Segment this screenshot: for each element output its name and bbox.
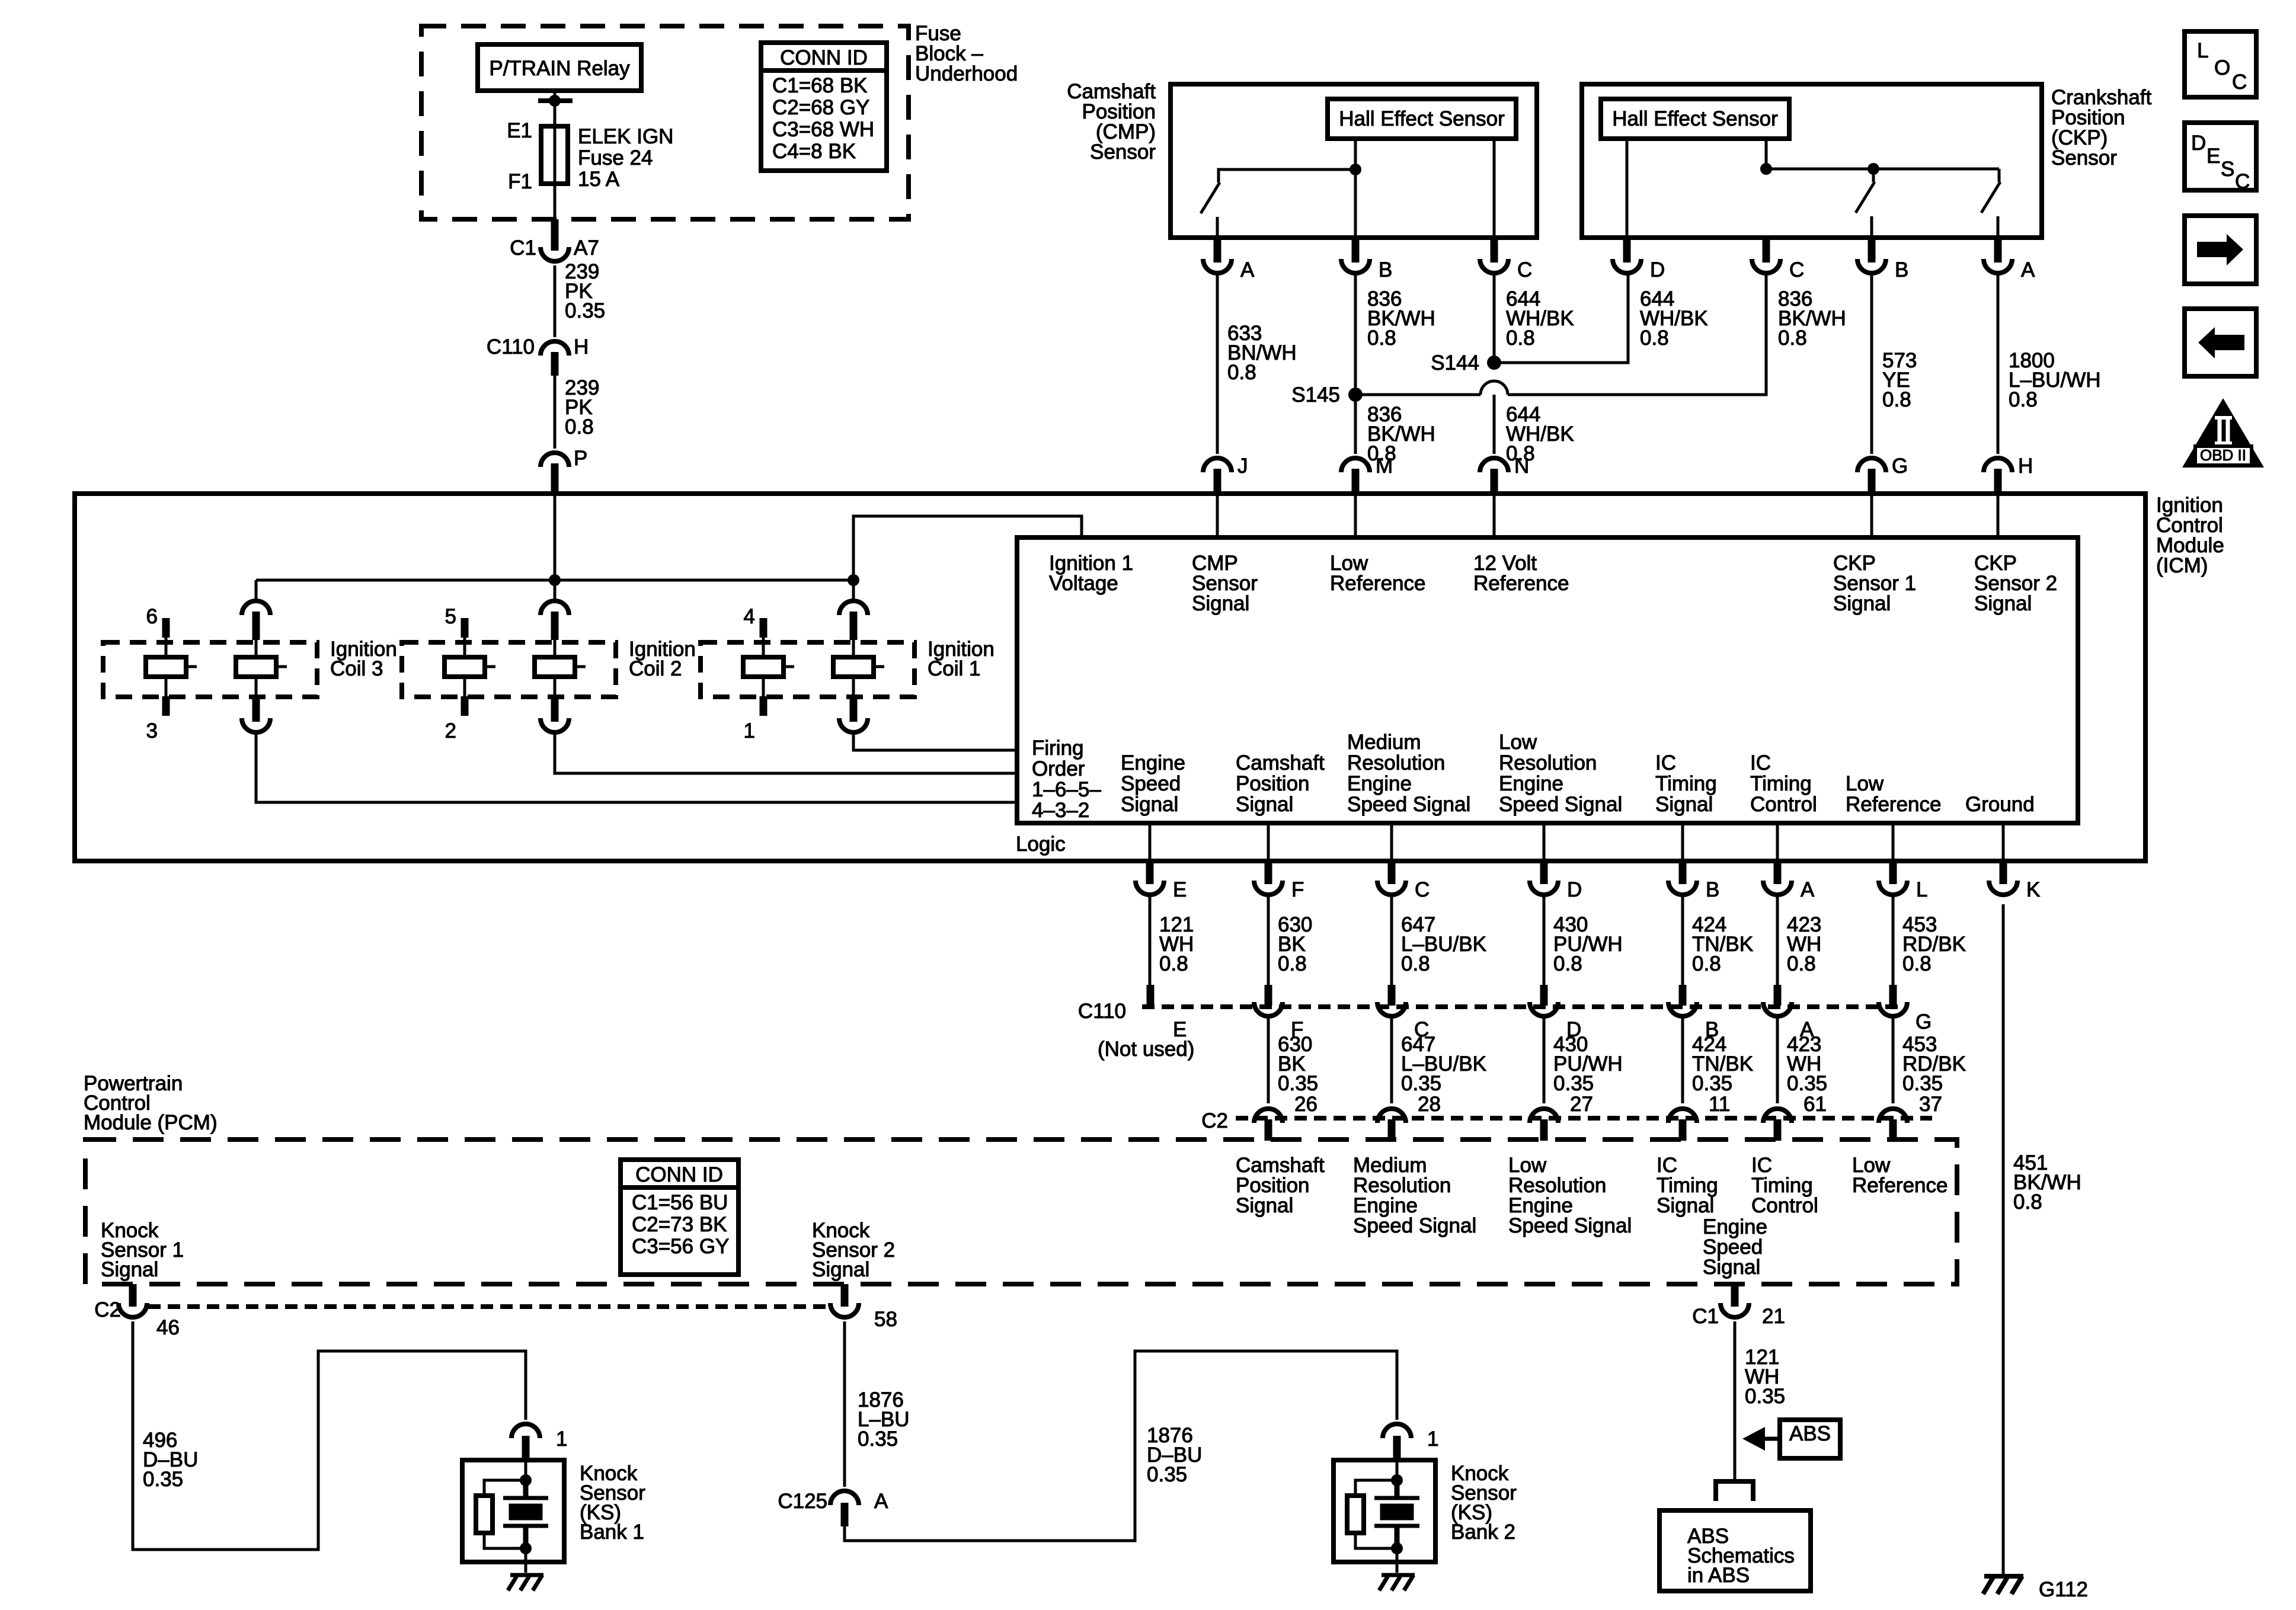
label medium resolution engine speed signal <box>1347 731 1470 816</box>
svg-text:P/TRAIN Relay: P/TRAIN Relay <box>489 57 630 80</box>
svg-text:0.35: 0.35 <box>1553 1072 1594 1095</box>
connector A CKP <box>1984 238 2035 281</box>
svg-text:D: D <box>2191 132 2206 155</box>
svg-text:C4=8 BK: C4=8 BK <box>772 140 856 163</box>
svg-text:C2: C2 <box>94 1298 121 1321</box>
svg-text:C: C <box>1415 878 1430 901</box>
connector pin 61 C2 PCM <box>1763 1109 1792 1141</box>
connector row C110 dashed line <box>1078 1000 1905 1023</box>
svg-text:0.35: 0.35 <box>858 1427 898 1451</box>
svg-text:IC: IC <box>1655 751 1676 774</box>
svg-text:Engine: Engine <box>1121 751 1185 774</box>
wire 647 L–BU/BK 0.8 pin C <box>1392 895 1486 988</box>
svg-text:J: J <box>1237 454 1248 478</box>
svg-text:Timing: Timing <box>1655 772 1717 795</box>
wire dotted C2-58 <box>148 1304 829 1309</box>
svg-text:Signal: Signal <box>1833 592 1891 615</box>
svg-text:Signal: Signal <box>812 1258 869 1281</box>
svg-text:0.8: 0.8 <box>1553 952 1582 975</box>
svg-text:C2=68 GY: C2=68 GY <box>772 96 869 119</box>
svg-text:D: D <box>1650 258 1665 281</box>
svg-text:0.35: 0.35 <box>1692 1072 1732 1095</box>
svg-text:Engine: Engine <box>1499 772 1563 795</box>
svg-text:Signal: Signal <box>1974 592 2032 615</box>
svg-text:Medium: Medium <box>1347 731 1421 754</box>
pin B ICM bottom <box>1668 823 1719 901</box>
svg-text:0.8: 0.8 <box>1227 361 1256 384</box>
svg-text:0.8: 0.8 <box>1506 327 1535 350</box>
svg-text:P: P <box>574 447 587 470</box>
label firing order <box>1032 737 1101 822</box>
wire 630 BK 0.8 pin F <box>1268 895 1312 988</box>
svg-text:26: 26 <box>1294 1093 1318 1116</box>
svg-text:Sensor: Sensor <box>2051 146 2117 169</box>
label low reference top <box>1330 552 1425 595</box>
connector C C110 <box>1377 985 1429 1041</box>
svg-text:C: C <box>2232 71 2247 94</box>
svg-text:0.35: 0.35 <box>1401 1072 1441 1095</box>
svg-text:D: D <box>1567 878 1582 901</box>
svg-text:Coil 1: Coil 1 <box>928 657 980 680</box>
svg-text:0.8: 0.8 <box>2009 388 2038 411</box>
label low resolution PCM <box>1508 1154 1632 1237</box>
svg-text:Bank 1: Bank 1 <box>580 1521 644 1544</box>
svg-text:ELEK IGN: ELEK IGN <box>578 125 673 148</box>
ignition coil dashed box Coil 1 <box>701 642 914 697</box>
wire 423 WH 0.35 C110-C2 <box>1777 1016 1827 1116</box>
wire coil supply bus <box>256 574 859 586</box>
svg-text:G: G <box>1916 1010 1932 1033</box>
connector 1 knock sensor 1 <box>511 1424 567 1460</box>
svg-text:0.8: 0.8 <box>2013 1190 2042 1214</box>
svg-text:C: C <box>1789 258 1804 281</box>
label knock sensor 1 signal <box>101 1219 184 1281</box>
switch CMP <box>1201 164 1361 238</box>
svg-text:Order: Order <box>1032 757 1085 780</box>
ignition coil secondary Coil 2 <box>535 580 586 732</box>
svg-text:C1: C1 <box>1692 1305 1719 1328</box>
svg-text:S145: S145 <box>1291 383 1340 406</box>
connector pin 28 C2 PCM <box>1377 1109 1406 1141</box>
svg-text:0.8: 0.8 <box>1401 952 1430 975</box>
wire 633 BN/WH 0.8 <box>1217 274 1297 454</box>
svg-text:M: M <box>1376 454 1393 478</box>
svg-text:C3=68 WH: C3=68 WH <box>772 118 874 141</box>
svg-text:0.35: 0.35 <box>1745 1385 1785 1408</box>
wire H into logic <box>1997 494 2000 537</box>
svg-text:Logic: Logic <box>1016 833 1066 856</box>
svg-text:Coil 2: Coil 2 <box>629 657 682 680</box>
wire 644 WH/BK 0.8 D branch <box>1494 274 1708 363</box>
wire 423 WH 0.8 pin A <box>1777 895 1821 988</box>
icon arrow left <box>2185 309 2256 376</box>
label engine speed signal <box>1121 751 1185 816</box>
wire 121 WH 0.35 <box>1735 1321 1785 1480</box>
svg-text:58: 58 <box>874 1308 897 1331</box>
label ignition 1 voltage <box>1049 552 1133 595</box>
ignition coil primary Coil 1 <box>743 605 794 742</box>
ignition coil primary Coil 3 <box>146 605 197 742</box>
svg-text:37: 37 <box>1919 1093 1942 1116</box>
svg-text:0.35: 0.35 <box>1787 1072 1827 1095</box>
relay K relay box P/TRAIN Relay <box>478 44 641 91</box>
wire 424 TN/BK 0.35 C110-C2 <box>1683 1016 1753 1116</box>
connector pin 27 C2 PCM <box>1530 1109 1558 1141</box>
label Coil 2 <box>629 638 696 680</box>
svg-text:A7: A7 <box>574 236 599 260</box>
connector C110 H top <box>487 335 589 376</box>
svg-text:Speed Signal: Speed Signal <box>1353 1214 1476 1237</box>
wire 430 PU/WH 0.8 pin D <box>1544 895 1623 988</box>
svg-text:Fuse 24: Fuse 24 <box>578 146 653 169</box>
label camshaft position sensor <box>1067 80 1156 164</box>
svg-text:C2=73 BK: C2=73 BK <box>632 1213 727 1236</box>
wire coil 2 firing line <box>555 735 1017 773</box>
svg-text:Resolution: Resolution <box>1347 751 1445 774</box>
svg-text:Voltage: Voltage <box>1049 572 1118 595</box>
svg-text:Signal: Signal <box>1236 1194 1293 1217</box>
pin C ICM bottom <box>1377 823 1430 901</box>
wire 239 PK 0.8 <box>555 376 599 449</box>
svg-text:C3=56 GY: C3=56 GY <box>632 1235 729 1258</box>
label camshaft position signal <box>1236 751 1325 816</box>
abs arrow tag <box>1742 1420 1840 1458</box>
pin E C110 not used <box>1098 985 1194 1061</box>
label IC timing signal <box>1655 751 1717 816</box>
wire 1800 L-BU/WH 0.8 <box>1998 274 2101 454</box>
wire 836 BK/WH 0.8 lower <box>1355 395 1435 465</box>
fuse F24 ELEK IGN 15A <box>507 119 673 193</box>
wire 836 BK/WH 0.8 C branch <box>1355 274 1846 395</box>
svg-text:ABS: ABS <box>1789 1422 1831 1445</box>
wire hall C internal CKP <box>1765 139 1768 169</box>
connector C2 46 PCM <box>94 1284 180 1339</box>
svg-text:0.35: 0.35 <box>1902 1072 1943 1095</box>
svg-text:C1=56 BU: C1=56 BU <box>632 1191 728 1214</box>
svg-text:46: 46 <box>156 1316 180 1339</box>
wire 1876 D-BU 0.35 <box>845 1351 1397 1541</box>
svg-text:Bank 2: Bank 2 <box>1451 1521 1515 1544</box>
svg-text:Coil 3: Coil 3 <box>330 657 383 680</box>
connector G ICM <box>1857 454 1908 494</box>
svg-text:Speed Signal: Speed Signal <box>1499 793 1622 816</box>
wire CKP internal bus <box>1760 163 1999 175</box>
label medium resolution PCM <box>1353 1154 1476 1237</box>
connector C125 A <box>778 1490 888 1526</box>
conn-id table PCM <box>621 1160 738 1275</box>
svg-text:Module (PCM): Module (PCM) <box>84 1111 218 1134</box>
svg-text:0.8: 0.8 <box>1787 952 1816 975</box>
connector C1 A7 <box>510 219 599 261</box>
wire M into logic <box>1354 494 1357 537</box>
connector F C110 <box>1254 985 1303 1041</box>
svg-text:Speed Signal: Speed Signal <box>1508 1214 1632 1237</box>
logic box inside ICM <box>1017 537 2078 823</box>
svg-text:Control: Control <box>1750 793 1817 816</box>
CMP sensor box <box>1171 84 1537 238</box>
connector 1 knock sensor 2 <box>1383 1424 1438 1460</box>
svg-text:A: A <box>874 1490 888 1513</box>
svg-text:E1: E1 <box>507 119 532 142</box>
svg-text:C2: C2 <box>1201 1109 1228 1132</box>
svg-text:C110: C110 <box>1078 1000 1126 1023</box>
svg-text:1: 1 <box>556 1427 567 1451</box>
svg-text:0.35: 0.35 <box>143 1468 183 1491</box>
svg-text:IC: IC <box>1750 751 1771 774</box>
wire fuse to connector C1 <box>554 184 557 219</box>
wire N into logic <box>1493 494 1496 537</box>
label low reference PCM <box>1852 1154 1948 1197</box>
svg-text:2: 2 <box>445 719 456 742</box>
svg-text:Speed Signal: Speed Signal <box>1347 793 1470 816</box>
label CMP sensor signal <box>1192 552 1258 615</box>
svg-text:1: 1 <box>744 719 755 742</box>
svg-text:A: A <box>1801 878 1815 901</box>
label camshaft position signal PCM <box>1236 1154 1325 1217</box>
node relay output tap <box>538 95 573 107</box>
wire 647 L–BU/BK 0.35 C110-C2 <box>1392 1016 1486 1116</box>
svg-text:B: B <box>1895 258 1908 281</box>
svg-text:Signal: Signal <box>1192 592 1249 615</box>
ignition coil secondary Coil 1 <box>833 580 884 732</box>
wire 1876 L-BU 0.35 <box>845 1321 910 1487</box>
svg-text:L: L <box>2197 39 2208 62</box>
svg-text:Signal: Signal <box>1121 793 1178 816</box>
label powertrain control module <box>84 1072 218 1134</box>
label knock sensor 2 signal <box>812 1219 895 1281</box>
wire 121 WH 0.8 pin E <box>1150 895 1194 988</box>
svg-text:0.8: 0.8 <box>1778 327 1807 350</box>
svg-text:Resolution: Resolution <box>1499 751 1597 774</box>
wire 451 BK/WH 0.8 ground <box>2003 904 2081 1576</box>
svg-text:0.8: 0.8 <box>565 415 594 438</box>
svg-text:C: C <box>2235 170 2250 193</box>
wire 453 RD/BK 0.35 C110-C2 <box>1893 1016 1966 1116</box>
svg-text:Signal: Signal <box>1703 1256 1760 1279</box>
svg-text:Position: Position <box>1236 772 1310 795</box>
svg-text:Reference: Reference <box>1473 572 1569 595</box>
svg-text:L: L <box>1916 878 1927 901</box>
svg-text:15 A: 15 A <box>578 168 620 191</box>
svg-text:Control: Control <box>1751 1194 1818 1217</box>
svg-text:O: O <box>2214 56 2230 79</box>
switch CKP sensor 2 <box>1981 169 2000 238</box>
connector D C110 <box>1530 985 1581 1041</box>
wire J into logic <box>1216 494 1219 537</box>
connector fork to ABS schematics <box>1716 1481 1753 1501</box>
svg-text:0.8: 0.8 <box>1692 952 1721 975</box>
ICM ignition control module box <box>75 494 2145 861</box>
svg-text:H: H <box>2018 454 2033 478</box>
CKP sensor box <box>1582 84 2042 238</box>
svg-text:1–6–5–: 1–6–5– <box>1032 778 1101 801</box>
svg-text:1: 1 <box>1427 1427 1438 1451</box>
icon arrow right <box>2185 216 2256 284</box>
label IC timing control PCM <box>1751 1154 1818 1217</box>
wire 239 PK 0.35 <box>555 260 605 337</box>
svg-text:(Not used): (Not used) <box>1098 1038 1194 1061</box>
ignition coil secondary Coil 3 <box>236 580 287 732</box>
connector B C110 <box>1668 985 1719 1041</box>
svg-text:0.35: 0.35 <box>565 299 605 322</box>
connector B CMP <box>1341 238 1392 281</box>
connector B CKP <box>1857 238 1908 281</box>
svg-text:0.8: 0.8 <box>1367 327 1396 350</box>
label crankshaft position sensor <box>2051 86 2152 169</box>
ground G112 <box>1983 1576 2088 1601</box>
svg-text:5: 5 <box>445 605 456 628</box>
svg-text:N: N <box>1514 454 1529 478</box>
svg-text:Sensor: Sensor <box>1090 140 1156 164</box>
connector D CKP <box>1613 238 1665 281</box>
connector N ICM <box>1480 454 1529 494</box>
svg-text:F1: F1 <box>508 170 532 193</box>
svg-text:61: 61 <box>1803 1093 1827 1116</box>
svg-text:CONN ID: CONN ID <box>780 46 868 69</box>
knock sensor KS bank 1 <box>462 1460 645 1590</box>
svg-text:Reference: Reference <box>1330 572 1425 595</box>
svg-text:0.8: 0.8 <box>1278 952 1307 975</box>
icon OBD II triangle <box>2182 398 2264 468</box>
svg-text:4: 4 <box>744 605 755 628</box>
svg-text:Reference: Reference <box>1852 1174 1948 1197</box>
svg-text:Low: Low <box>1846 772 1884 795</box>
connector pin 26 C2 PCM <box>1254 1109 1283 1141</box>
svg-text:0.8: 0.8 <box>1159 952 1188 975</box>
svg-text:A: A <box>2021 258 2035 281</box>
label CKP sensor 1 signal <box>1833 552 1916 615</box>
connector 58 PCM <box>830 1284 897 1331</box>
svg-text:0.8: 0.8 <box>1882 388 1911 411</box>
icon DESC <box>2185 123 2256 193</box>
wire relay to fuse <box>554 91 557 126</box>
svg-text:B: B <box>1379 258 1392 281</box>
svg-text:6: 6 <box>146 605 158 628</box>
label Coil 3 <box>330 638 397 680</box>
svg-text:Signal: Signal <box>1655 793 1713 816</box>
svg-text:Signal: Signal <box>1236 793 1293 816</box>
svg-text:G112: G112 <box>2039 1578 2088 1601</box>
connector C CKP <box>1752 238 1804 281</box>
label ignition control module <box>2156 494 2224 577</box>
connector pin 37 C2 PCM <box>1879 1109 1907 1141</box>
node S144 <box>1431 351 1501 375</box>
svg-text:Timing: Timing <box>1750 772 1812 795</box>
switch CKP sensor 1 <box>1856 169 1875 238</box>
wire P into ICM <box>554 494 557 580</box>
svg-text:0.35: 0.35 <box>1278 1072 1318 1095</box>
svg-text:Speed: Speed <box>1121 772 1181 795</box>
pin L ICM bottom <box>1879 823 1927 901</box>
svg-text:Camshaft: Camshaft <box>1236 751 1325 774</box>
connector C CMP <box>1480 238 1532 281</box>
connector A C110 <box>1763 985 1814 1041</box>
svg-text:C125: C125 <box>778 1490 827 1513</box>
wire 496 D-BU 0.35 <box>133 1321 526 1550</box>
svg-text:F: F <box>1291 878 1304 901</box>
svg-text:Firing: Firing <box>1032 737 1084 760</box>
wire coil 1 firing line <box>853 735 1017 750</box>
connector pin 11 C2 PCM <box>1668 1109 1697 1141</box>
icon LOC <box>2185 31 2256 97</box>
svg-text:Hall Effect Sensor: Hall Effect Sensor <box>1339 107 1505 130</box>
wire hall B internal <box>1354 139 1357 238</box>
knock sensor KS bank 2 <box>1334 1460 1517 1590</box>
svg-text:0.8: 0.8 <box>1902 952 1932 975</box>
connector row C2 dashed line <box>1201 1109 1932 1132</box>
svg-text:C: C <box>1517 258 1532 281</box>
svg-text:Signal: Signal <box>1657 1194 1714 1217</box>
svg-text:K: K <box>2026 878 2040 901</box>
svg-text:21: 21 <box>1762 1305 1785 1328</box>
svg-text:CONN ID: CONN ID <box>635 1163 723 1186</box>
connector H ICM <box>1984 454 2033 494</box>
svg-text:C110: C110 <box>487 335 535 359</box>
label Coil 1 <box>928 638 994 680</box>
pin D ICM bottom <box>1530 823 1582 901</box>
ignition coil dashed box Coil 2 <box>402 642 616 697</box>
svg-text:Underhood: Underhood <box>915 62 1018 85</box>
svg-text:OBD II: OBD II <box>2200 446 2246 464</box>
pin E ICM bottom <box>1136 823 1187 901</box>
hall effect sensor box CKP <box>1601 99 1789 139</box>
svg-text:(ICM): (ICM) <box>2156 554 2208 577</box>
svg-text:C1=68 BK: C1=68 BK <box>772 74 868 97</box>
label low reference bottom <box>1846 772 1941 816</box>
wire 573 YE 0.8 <box>1872 274 1917 454</box>
node S145 <box>1291 383 1363 406</box>
svg-text:28: 28 <box>1418 1093 1441 1116</box>
wire 644 WH/BK 0.8 lower <box>1494 395 1574 465</box>
label ground <box>1965 793 2035 816</box>
wire 644 WH/BK 0.8 upper <box>1494 274 1574 363</box>
wire hall C internal <box>1493 139 1496 238</box>
label low resolution engine speed signal <box>1499 731 1622 816</box>
svg-text:in ABS: in ABS <box>1687 1564 1750 1587</box>
wire ignition voltage riser <box>853 516 1082 580</box>
wire 453 RD/BK 0.8 pin L <box>1893 895 1966 988</box>
svg-text:Hall Effect Sensor: Hall Effect Sensor <box>1612 107 1778 130</box>
connector J ICM <box>1203 454 1248 494</box>
wire 836 BK/WH 0.8 upper <box>1355 274 1435 395</box>
wire hall D internal <box>1626 139 1629 238</box>
hall effect sensor box CMP <box>1328 99 1516 139</box>
svg-text:11: 11 <box>1709 1093 1730 1116</box>
ABS schematics box <box>1659 1510 1811 1591</box>
connector C1 21 PCM <box>1692 1284 1785 1328</box>
svg-text:Reference: Reference <box>1846 793 1941 816</box>
conn-id table fuse block <box>761 43 887 171</box>
wire 430 PU/WH 0.35 C110-C2 <box>1544 1016 1623 1116</box>
svg-text:H: H <box>574 335 589 359</box>
connector M ICM <box>1341 454 1393 494</box>
pin A ICM bottom <box>1763 823 1815 901</box>
pin K ICM bottom <box>1989 823 2040 901</box>
svg-text:C1: C1 <box>510 236 536 260</box>
svg-text:S144: S144 <box>1431 351 1479 375</box>
ignition coil primary Coil 2 <box>445 605 495 742</box>
svg-text:E: E <box>2207 145 2220 168</box>
PCM powertrain control module dashed box <box>85 1140 1957 1284</box>
svg-text:G: G <box>1892 454 1908 478</box>
svg-text:Engine: Engine <box>1347 772 1412 795</box>
svg-text:0.35: 0.35 <box>1147 1463 1187 1486</box>
wire 630 BK 0.35 C110-C2 <box>1268 1016 1318 1116</box>
svg-text:Low: Low <box>1499 731 1537 754</box>
svg-text:B: B <box>1706 878 1719 901</box>
label fuse block underhood <box>915 22 1018 85</box>
svg-text:3: 3 <box>146 719 158 742</box>
